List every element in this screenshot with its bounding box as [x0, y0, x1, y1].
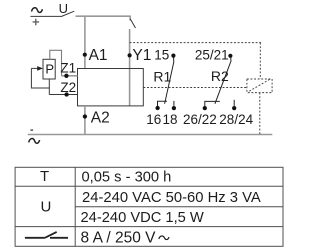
svg-text:Z2: Z2 — [60, 80, 76, 95]
R1 seat bar — [158, 101, 168, 106]
svg-text:24-240 VDC 1,5 W: 24-240 VDC 1,5 W — [81, 210, 204, 226]
node Y1 — [128, 53, 132, 57]
wire Z2 — [49, 94, 77, 96]
dashed link mid — [143, 87, 246, 89]
node Z2 — [64, 92, 68, 96]
node 28/24 — [232, 106, 236, 110]
contact R2 blade — [215, 57, 231, 103]
dashed wire coil top — [259, 43, 261, 79]
node A1 — [83, 53, 87, 57]
svg-text:26/22: 26/22 — [183, 112, 217, 127]
node 18 — [172, 106, 176, 110]
supply switch blade — [61, 11, 74, 16]
AC symbol bottom — [29, 139, 40, 144]
svg-text:24-240 VAC 50-60 Hz 3 VA: 24-240 VAC 50-60 Hz 3 VA — [82, 190, 261, 206]
DC plus symbol — [33, 19, 40, 26]
svg-text:0,05 s - 300 h: 0,05 s - 300 h — [82, 169, 172, 185]
svg-text:18: 18 — [163, 112, 178, 127]
supply line (left, to switch) — [30, 15, 61, 17]
AC tilde in rating — [159, 236, 169, 240]
node Z1 — [64, 74, 68, 78]
wire wiper loop — [31, 68, 49, 88]
wire P top to Z1 — [50, 50, 62, 76]
svg-text:16: 16 — [146, 112, 161, 127]
node 26/22 — [203, 106, 207, 110]
contact R1 blade — [165, 57, 174, 104]
svg-text:R2: R2 — [211, 68, 229, 84]
table symbol output contact — [25, 232, 68, 238]
P wiper arrow — [31, 67, 38, 69]
wire A2 vertical — [84, 106, 86, 134]
svg-text:25/21: 25/21 — [195, 48, 229, 63]
wire Z1 — [62, 75, 78, 77]
wire P bottom to Z2 — [48, 79, 50, 95]
svg-text:A2: A2 — [91, 109, 110, 126]
bottom supply rail (gray) — [28, 134, 273, 136]
wire A1 vertical — [84, 16, 86, 68]
node 15 — [171, 54, 175, 58]
svg-text:Y1: Y1 — [132, 47, 151, 64]
svg-text:T: T — [40, 168, 49, 185]
spec table frame — [15, 167, 283, 246]
svg-text:28/24: 28/24 — [219, 112, 253, 127]
pin 28/24 stub — [233, 100, 235, 106]
dashed wire coil bottom — [259, 93, 261, 135]
dashed link top — [130, 42, 261, 44]
node 25/21 — [228, 54, 232, 58]
wire Y1 vertical — [129, 29, 131, 106]
svg-text:Z1: Z1 — [60, 61, 76, 76]
Y1 branch switch blade — [130, 19, 135, 28]
DC minus symbol — [30, 129, 33, 131]
AC supply symbol (~ over line) — [32, 8, 43, 13]
top supply rail (gray) — [76, 16, 131, 20]
pin 18 stub — [173, 101, 175, 106]
svg-text:P: P — [45, 61, 54, 76]
node A2 — [83, 114, 87, 118]
svg-text:R1: R1 — [153, 68, 171, 84]
relay coil K1 (dashed box with diagonal) — [247, 79, 272, 93]
device body U1 — [78, 69, 144, 106]
svg-text:U: U — [59, 1, 68, 16]
svg-text:A1: A1 — [89, 47, 108, 64]
svg-text:8 A / 250 V: 8 A / 250 V — [81, 229, 157, 246]
svg-text:U: U — [41, 199, 52, 216]
R2 seat bar — [205, 101, 220, 106]
svg-text:15: 15 — [154, 48, 169, 63]
node 16 — [155, 106, 159, 110]
potentiometer P — [43, 59, 55, 79]
